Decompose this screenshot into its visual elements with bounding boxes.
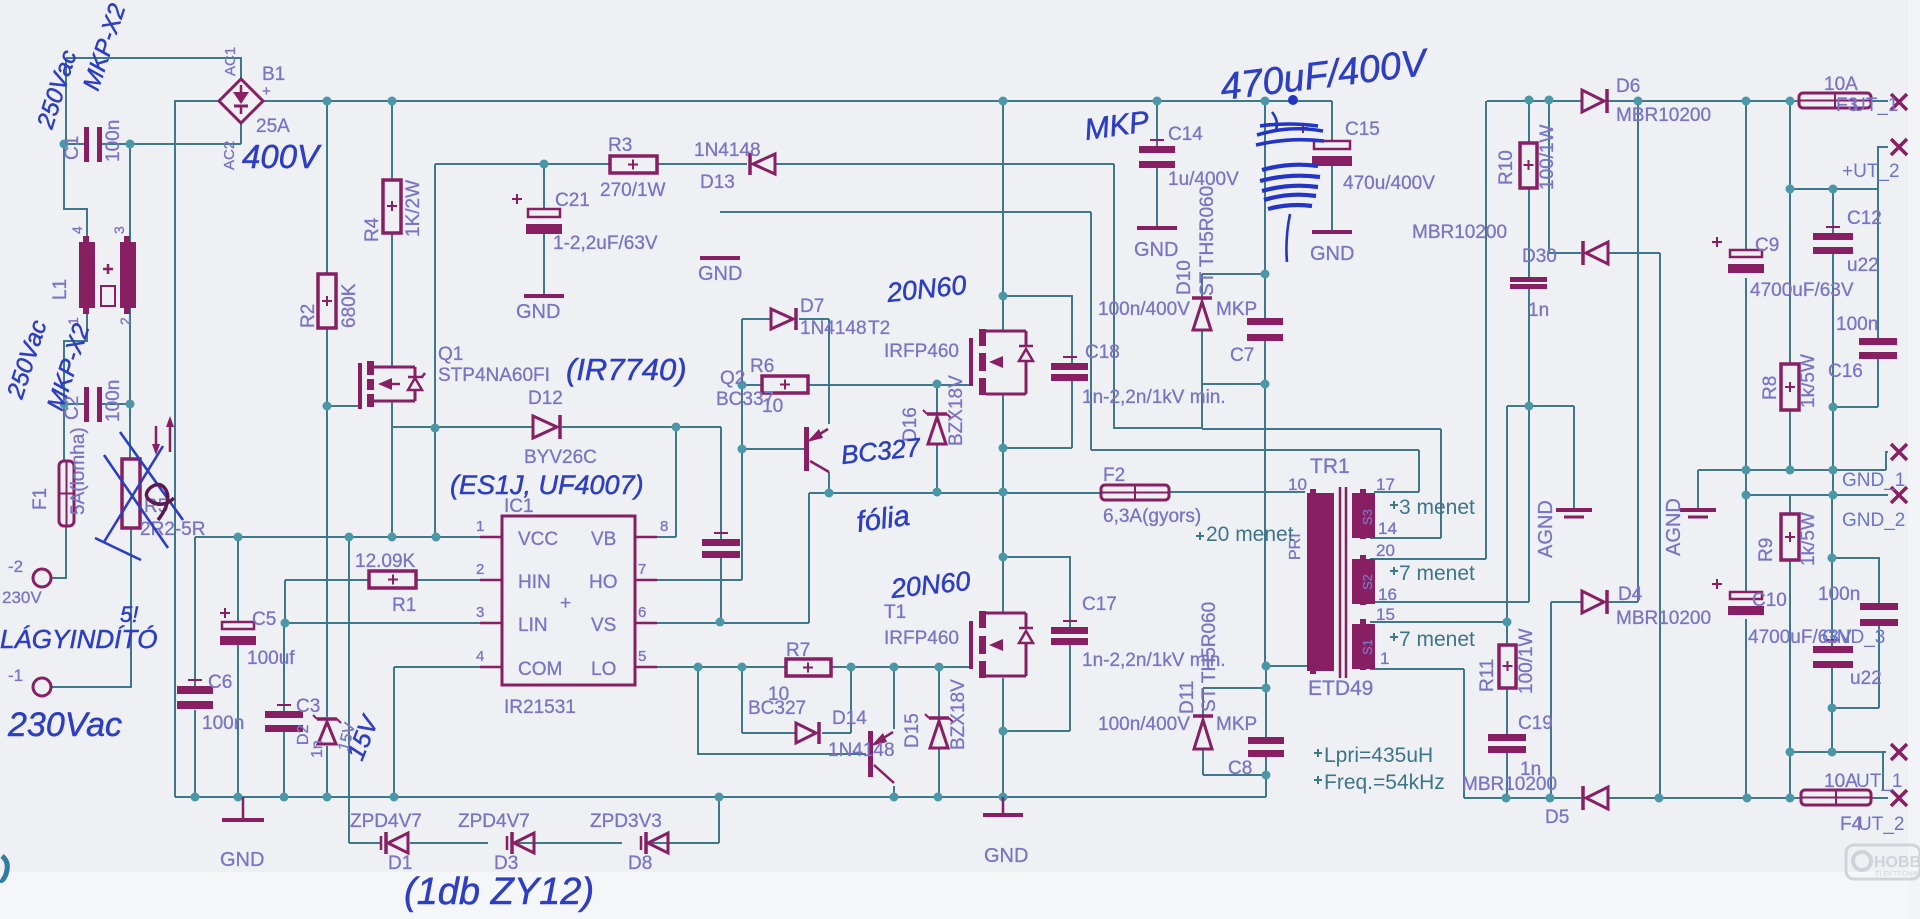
svg-text:BC327: BC327 (748, 698, 806, 719)
zener D1 (381, 832, 408, 854)
capacitor C12 (1813, 227, 1853, 254)
wire C12 column (1832, 189, 1834, 495)
thermistor R5 (122, 416, 174, 528)
node C8 top link (1262, 684, 1271, 693)
terminal X +UT_1 (1891, 94, 1907, 110)
svg-text:COM: COM (518, 659, 562, 680)
resistor R10 (1520, 143, 1537, 188)
wire AC1 top loop from C1 left to bridge top (66, 58, 241, 79)
svg-text:100/1W: 100/1W (1537, 124, 1558, 190)
svg-text:Q2: Q2 (720, 368, 745, 389)
svg-text:270/1W: 270/1W (600, 180, 666, 201)
capacitor C2 (84, 387, 89, 422)
capacitor C8 (1248, 737, 1284, 757)
diode D11 (1193, 716, 1213, 749)
node D16 anode on switch line (933, 488, 942, 497)
wire T1 source chain with C17 bottom link (1003, 645, 1070, 797)
wire S1 bottom down to output minus line (1370, 669, 1464, 798)
svg-text:+UT_2: +UT_2 (1842, 161, 1900, 182)
node LO T3 emitter (890, 663, 899, 672)
svg-text:D5: D5 (1545, 807, 1569, 828)
svg-text:10: 10 (1288, 475, 1307, 494)
wire mid GND symbol line to TR aux return (720, 212, 1419, 492)
svg-text:1: 1 (476, 518, 484, 535)
svg-text:Q1: Q1 (438, 344, 463, 365)
svg-text:D4: D4 (1618, 584, 1643, 605)
svg-text:4: 4 (476, 648, 484, 665)
wire D16 leads (936, 384, 938, 492)
node D6 line F3 tap (1786, 97, 1795, 106)
svg-text:100uf: 100uf (247, 648, 295, 669)
node HO R6 left (738, 381, 747, 390)
node Q1 gate junction (323, 402, 332, 411)
wire C4 bottom to VS line (720, 557, 722, 622)
terminal X +UT_2 (1891, 139, 1907, 155)
svg-text:TR1: TR1 (1310, 455, 1350, 478)
terminal J1 lower (33, 678, 51, 696)
svg-text:ELEKTRONIKA: ELEKTRONIKA (1875, 871, 1920, 878)
resistor R9 (1781, 514, 1799, 560)
mosfet T2 (969, 329, 1033, 395)
svg-text:5!: 5! (120, 602, 138, 627)
wire C1 horizontal leads and AC2 link to bridge bottom (64, 123, 241, 144)
svg-text:7 menet: 7 menet (1399, 562, 1475, 585)
node C21 top (540, 160, 549, 169)
svg-text:GND_3: GND_3 (1822, 627, 1885, 648)
diode D12 (533, 415, 560, 439)
wire L1 pin 1 down to C2 left (64, 308, 87, 404)
wire D11 C8 clamp links (1203, 666, 1266, 797)
svg-text:R3: R3 (608, 135, 632, 156)
node VS C4 bottom (716, 618, 725, 627)
svg-text:1k/5W: 1k/5W (1798, 354, 1819, 408)
wire C10 column (1745, 495, 1747, 798)
svg-text:LIN: LIN (518, 615, 548, 636)
wire Q1 source down to VCC rail (391, 401, 393, 537)
svg-text:-2: -2 (8, 557, 23, 576)
wire Q2 collector to VS line (828, 472, 830, 493)
wire D4 line to +UT via x1638 (1551, 101, 1638, 798)
svg-text:R11: R11 (1477, 659, 1498, 692)
svg-text:S3: S3 (1360, 509, 1375, 525)
svg-text:AGND: AGND (1663, 498, 1685, 556)
wire C1 right down to L1 pin 3 (129, 144, 131, 242)
svg-text:AC2: AC2 (221, 141, 238, 170)
node rail C7 clamp top (1261, 97, 1270, 106)
node GND_1 R8 (1786, 466, 1795, 475)
node minus line D4 riser (1546, 794, 1555, 803)
svg-text:HO: HO (589, 572, 618, 593)
svg-text:UT_1: UT_1 (1852, 95, 1898, 116)
svg-text:VS: VS (591, 615, 616, 636)
capacitor C13 u22 (1813, 640, 1853, 668)
svg-text:1N4148: 1N4148 (694, 140, 761, 161)
fuse F4 (1801, 790, 1871, 805)
capacitor C9 electrolytic (1712, 237, 1764, 273)
svg-text:D11: D11 (1177, 681, 1198, 714)
resistor R1 (369, 571, 416, 588)
svg-text:GND: GND (220, 849, 264, 871)
svg-text:LO: LO (591, 659, 616, 680)
svg-text:D8: D8 (628, 853, 652, 874)
svg-text:1K/2W: 1K/2W (403, 180, 424, 237)
svg-text:(1db ZY12): (1db ZY12) (404, 871, 594, 913)
svg-text:BYV26C: BYV26C (524, 447, 597, 468)
svg-text:R7: R7 (786, 640, 810, 661)
node C12 C16 join (1829, 403, 1838, 412)
wire x435 vertical VCC link (434, 164, 436, 537)
handwriting capacitor doodle over C15 (1256, 95, 1324, 262)
node AGND junction (1525, 402, 1534, 411)
wire R10 snubber column (1528, 100, 1530, 406)
svg-text:D30: D30 (1522, 246, 1557, 267)
svg-text:ZPD4V7: ZPD4V7 (350, 811, 422, 832)
svg-text:BZX18V: BZX18V (946, 375, 967, 446)
capacitor C6 (177, 680, 213, 709)
svg-text:C16: C16 (1828, 361, 1863, 382)
wire C5 column (237, 537, 239, 797)
svg-text:F2: F2 (1103, 465, 1125, 486)
wire T3 collector to GND rail (893, 786, 895, 797)
wire D15 leads (938, 667, 940, 797)
transistor Q2 (804, 427, 829, 472)
node minus line D30 riser (1655, 794, 1664, 803)
svg-text:GND: GND (984, 845, 1028, 867)
capacitor C10 electrolytic (1712, 579, 1764, 615)
svg-text:IR21531: IR21531 (504, 697, 576, 718)
terminal X -UT_1 (1891, 744, 1907, 760)
terminal X GND_1 (1891, 444, 1907, 460)
wire GND_2 line (1746, 470, 1888, 495)
svg-text:VB: VB (591, 529, 616, 550)
wire -UT_1 branch (1790, 752, 1886, 791)
wire VB pin 8 to D12 line and C4 top (392, 427, 721, 539)
wire secondary +UT line with D6 (1487, 100, 1888, 102)
handwriting R5 crossout (95, 432, 183, 560)
zener D3 (507, 832, 534, 854)
diode D13 (750, 153, 775, 175)
node minus line C10 (1743, 794, 1752, 803)
svg-text:R6: R6 (750, 356, 774, 377)
node GND rail D15 (934, 793, 943, 802)
svg-text:12.09K: 12.09K (355, 551, 416, 572)
svg-text:+: + (560, 593, 571, 614)
node Q2 base tee (738, 445, 747, 454)
wire D14 loop under R7 (742, 667, 851, 733)
node Q2 collector on VS line (825, 489, 834, 498)
ground symbol AGND 1 (1556, 510, 1592, 517)
svg-text:C5: C5 (252, 609, 276, 630)
svg-text:AGND: AGND (1535, 500, 1557, 558)
node AGND symbol tee (1573, 469, 1575, 471)
node GND rail T3 collector (890, 793, 899, 802)
svg-text:MKP: MKP (1216, 299, 1257, 320)
wire VCC rail to IC pin 1 (195, 536, 502, 538)
node VCC rail ZPD feed (345, 533, 354, 542)
svg-text:C15: C15 (1345, 119, 1380, 140)
svg-text:16: 16 (1378, 585, 1397, 604)
svg-text:3 menet: 3 menet (1399, 496, 1475, 519)
svg-text:C10: C10 (1752, 590, 1787, 611)
svg-text:1N4148: 1N4148 (800, 318, 867, 339)
node u22 100n bottom join (1828, 704, 1837, 713)
node rail R4 top (388, 97, 397, 106)
svg-text:F1: F1 (30, 488, 51, 510)
node LO T3 base tap (694, 663, 703, 672)
svg-text:100n: 100n (103, 380, 124, 422)
svg-text:C18: C18 (1085, 342, 1120, 363)
svg-text:D13: D13 (700, 172, 735, 193)
wire VS pin 6 to switch node line (657, 493, 1101, 623)
wire primary +310V top rail (263, 100, 1332, 102)
choke L1 (79, 236, 136, 314)
wire R9 bleeder column (1789, 495, 1791, 798)
node GND_2 u22 (1829, 491, 1838, 500)
wire C14 column (1156, 101, 1158, 228)
resistor R6 (762, 376, 808, 393)
svg-text:u22: u22 (1847, 255, 1879, 276)
svg-text:R10: R10 (1496, 150, 1517, 185)
svg-text:100n: 100n (103, 120, 124, 162)
wire L1 pin 2 down to C2 right (129, 308, 131, 404)
diode D30 (1583, 241, 1608, 265)
wire D30 line to -UT via x1660 (1549, 100, 1660, 798)
svg-text:100n: 100n (1818, 584, 1860, 605)
wire +UT_2 branch line (1790, 101, 1888, 189)
svg-text:HIN: HIN (518, 572, 551, 593)
node rail R2 top (323, 97, 332, 106)
svg-text:GND: GND (1134, 239, 1178, 261)
resistor R11 (1499, 645, 1516, 688)
svg-text:1k/5W: 1k/5W (1798, 512, 1819, 566)
wire D7 leads (742, 318, 829, 320)
wire C15 column (1331, 101, 1333, 232)
node D6 line D4 cathode riser (1634, 97, 1643, 106)
node GND_2 C10 (1742, 491, 1751, 500)
svg-text:ZPD3V3: ZPD3V3 (590, 811, 662, 832)
ground symbol AGND 2 (1680, 510, 1716, 517)
svg-text:T2: T2 (868, 318, 890, 339)
handwriting bottom left mark (0, 856, 7, 880)
wire output minus line with D5 and F4 (1464, 797, 1888, 799)
svg-text:25A: 25A (256, 116, 290, 137)
node +UT_2 line C12 (1829, 185, 1838, 194)
svg-text:100n: 100n (1836, 314, 1878, 335)
wire ZPD zener chain feed and links (349, 537, 719, 843)
svg-text:HOBB: HOBB (1874, 854, 1920, 871)
svg-text:100n/400V: 100n/400V (1098, 299, 1190, 320)
svg-text:C21: C21 (555, 190, 590, 211)
svg-text:C7: C7 (1230, 345, 1254, 366)
svg-text:GND_2: GND_2 (1842, 510, 1905, 531)
svg-text:3: 3 (111, 226, 127, 234)
svg-text:R9: R9 (1756, 538, 1777, 562)
wire C2 left down through F1 to terminal (51, 404, 66, 578)
wire C9 column (1745, 101, 1747, 470)
wire R1 to HIN and LIN node (285, 580, 480, 623)
wire C1 left vertical (65, 58, 67, 144)
svg-text:1: 1 (1380, 649, 1389, 668)
diode D7 (771, 308, 796, 330)
wire C6 column (194, 537, 196, 797)
resistor R7 (786, 659, 831, 676)
ground symbol T1 GND (983, 797, 1023, 815)
svg-text:7 menet: 7 menet (1399, 628, 1475, 651)
wire D10 C7 clamp links (1202, 101, 1265, 384)
svg-text:D6: D6 (1616, 76, 1640, 97)
wire TR1 pin 16 up to AGND node (1370, 406, 1529, 602)
svg-text:5A(lomha): 5A(lomha) (68, 427, 89, 515)
wire C21 column (543, 164, 545, 295)
node -UT_1 R9 (1786, 748, 1795, 757)
wire COM pin 4 to GND rail (394, 667, 480, 797)
node VCC rail x435 (432, 533, 441, 542)
svg-text:S2: S2 (1360, 574, 1375, 590)
svg-text:u22: u22 (1850, 668, 1882, 689)
capacitor C18 (1051, 357, 1088, 381)
node rail C14 top (1153, 97, 1162, 106)
node GND_1 C9 (1742, 466, 1751, 475)
svg-text:MBR10200: MBR10200 (1412, 222, 1507, 243)
capacitor C16 (1859, 338, 1897, 359)
svg-text:+: + (262, 83, 271, 100)
svg-text:6: 6 (638, 604, 646, 621)
svg-text:2: 2 (117, 317, 133, 325)
node T1 source C17 tap (999, 727, 1008, 736)
svg-text:230Vac: 230Vac (7, 706, 122, 744)
terminal X -UT_2 (1891, 790, 1907, 806)
capacitor C4 (702, 533, 740, 558)
svg-text:C9: C9 (1755, 235, 1779, 256)
node C2 left junction (60, 400, 69, 409)
wire TR1 pin 20 route up to D6 line (1370, 101, 1486, 559)
node D6 line D30 (1545, 96, 1554, 105)
svg-text:C19: C19 (1518, 713, 1553, 734)
svg-text:4700uF/63V: 4700uF/63V (1750, 280, 1854, 301)
node GND rail D2 (323, 793, 332, 802)
svg-text:Lpri=435uH: Lpri=435uH (1324, 744, 1433, 767)
svg-text:470u/400V: 470u/400V (1343, 173, 1435, 194)
wire AGND2 lead (1697, 470, 1699, 510)
fuse F1 (59, 461, 74, 526)
zener D8 (641, 832, 668, 854)
handwriting R5 curl (146, 484, 174, 520)
svg-text:IRFP460: IRFP460 (884, 628, 959, 649)
svg-text:20: 20 (1376, 541, 1395, 560)
svg-text:4: 4 (69, 226, 85, 234)
svg-text:1-2,2uF/63V: 1-2,2uF/63V (553, 233, 658, 254)
wire C1 left down to L1 pin 4 (64, 144, 87, 242)
node VCC rail C5 (234, 533, 243, 542)
wire R11 C19 snubber column (1506, 622, 1508, 798)
fuse F2 (1101, 485, 1169, 500)
svg-text:680K: 680K (339, 283, 360, 328)
node clamp top link C7 (1261, 270, 1270, 279)
svg-text:LÁGYINDÍTÓ: LÁGYINDÍTÓ (0, 624, 157, 654)
node LO D15 top (935, 663, 944, 672)
wire R4 column to Q1 drain (391, 101, 393, 367)
ground symbol C14 GND (1137, 226, 1177, 230)
wire AGND node jogs (1507, 406, 1574, 622)
svg-text:(IR7740): (IR7740) (566, 352, 687, 387)
node GND rail C5 (234, 793, 243, 802)
svg-text:1n: 1n (309, 740, 326, 758)
wire R2 column and Q1 gate node (327, 101, 359, 797)
transformer TR1 (1307, 487, 1375, 678)
svg-text:1n: 1n (1528, 300, 1549, 321)
wire LO pin 5 line to T1 gate (657, 666, 971, 668)
svg-text:10: 10 (762, 396, 783, 417)
wire Q2 base lead (742, 448, 804, 450)
svg-text:14: 14 (1378, 519, 1397, 538)
svg-text:230V: 230V (2, 588, 42, 607)
wire T2 gate line (829, 384, 971, 386)
svg-text:C12: C12 (1847, 208, 1882, 229)
svg-text:C14: C14 (1168, 124, 1203, 145)
wire F2 to TR1 pin 10 (1169, 491, 1305, 493)
node T2 gate D16 (933, 380, 942, 389)
svg-text:R1: R1 (392, 595, 416, 616)
node GND rail C3 (280, 793, 289, 802)
node T2 source on switch line (999, 488, 1008, 497)
svg-text:UT_2: UT_2 (1858, 814, 1904, 835)
wire T2 source to switch line (1002, 394, 1004, 492)
capacitor C5 electrolytic (220, 608, 256, 645)
svg-text:7: 7 (638, 561, 646, 578)
node LIN R1 C3 (281, 619, 290, 628)
svg-text:ZPD4V7: ZPD4V7 (458, 811, 530, 832)
node D6 line C9 (1742, 97, 1751, 106)
fuse F3 (1799, 93, 1871, 108)
svg-text:IRFP460: IRFP460 (884, 341, 959, 362)
svg-text:1n-2,2n/1kV min.: 1n-2,2n/1kV min. (1082, 387, 1226, 408)
transistor T3 (868, 731, 894, 783)
diode D5 (1583, 786, 1608, 810)
capacitor C1 (84, 127, 89, 162)
node C1 right junction (126, 140, 135, 149)
node GND rail C6 (191, 793, 200, 802)
node GND rail T1 source (999, 793, 1008, 802)
capacitor C21 electrolytic (512, 194, 562, 234)
capacitor C14 (1139, 140, 1175, 168)
svg-text:8: 8 (660, 518, 668, 535)
svg-text:R4: R4 (362, 217, 383, 242)
svg-text:6,3A(gyors): 6,3A(gyors) (1103, 506, 1201, 527)
svg-text:MBR10200: MBR10200 (1616, 608, 1711, 629)
node rail T2 drain (999, 97, 1008, 106)
svg-text:D15: D15 (902, 713, 923, 748)
capacitor C7 (1247, 318, 1283, 341)
wire TR1 pin 14 route to node B (1202, 429, 1441, 538)
wire Q2 emitter node vertical (828, 319, 830, 424)
svg-text:10A: 10A (1824, 74, 1858, 95)
wire TR1 pin 15 to R11 (1370, 621, 1507, 623)
node GND rail ZPD return (715, 793, 724, 802)
resistor R2 (318, 274, 336, 328)
capacitor C19 (1488, 734, 1526, 753)
svg-text:100n: 100n (202, 713, 244, 734)
resistor R8 (1781, 364, 1799, 410)
wire R3 D13 line to clamp node B (435, 164, 1202, 428)
svg-text:ST TH5R060: ST TH5R060 (1199, 602, 1220, 712)
node T1 drain C17 tap (999, 553, 1008, 562)
diode D10 (1192, 298, 1212, 330)
svg-text:C1: C1 (62, 136, 83, 160)
wire C18 bottom link to T2 source (1003, 381, 1072, 448)
terminal X GND_2 (1891, 487, 1907, 503)
node C8 bottom link (1262, 771, 1271, 780)
svg-text:MBR10200: MBR10200 (1616, 105, 1711, 126)
